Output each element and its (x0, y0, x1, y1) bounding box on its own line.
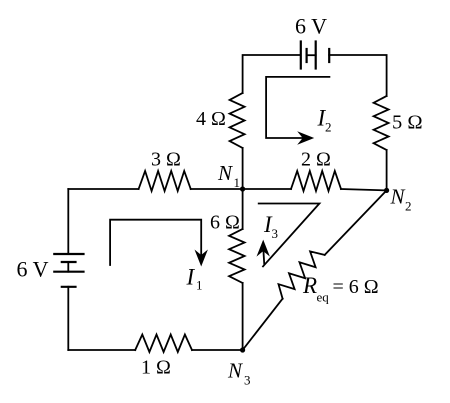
wire: middle left segment to 3-ohm (68, 188, 138, 190)
battery B2 top 6V: short plate 2 (328, 49, 330, 62)
resistor 5 ohm (374, 96, 389, 150)
svg-text:2: 2 (405, 199, 412, 214)
svg-text:6 Ω: 6 Ω (210, 212, 240, 234)
wire: 5-ohm to node N2 (386, 150, 388, 190)
svg-text:3 Ω: 3 Ω (151, 149, 181, 171)
svg-text:3: 3 (244, 373, 251, 388)
loop indicator I3 (top line + diagonal) (259, 204, 320, 267)
arrowhead I2 (right) (297, 131, 314, 144)
resistor 6 ohm (229, 229, 245, 283)
svg-text:N: N (227, 359, 243, 383)
node N2 dot (384, 188, 389, 193)
svg-text:I: I (186, 265, 196, 290)
svg-text:1 Ω: 1 Ω (141, 357, 171, 379)
svg-text:5 Ω: 5 Ω (392, 112, 423, 134)
wire: 4-ohm to node N1 (242, 148, 244, 189)
svg-text:1: 1 (196, 278, 203, 293)
arrowhead I3 (up) (257, 240, 270, 257)
wire: bottom left to 1-ohm (68, 349, 135, 351)
svg-text:3: 3 (272, 226, 279, 241)
resistor 1 ohm (135, 335, 192, 353)
wire: left branch upper (67, 189, 69, 254)
loop indicator I2 (266, 77, 329, 138)
node N3 dot (240, 347, 245, 352)
wire: diagonal lower (N3 to Req) (243, 299, 283, 350)
arrowhead I1 (down) (195, 250, 208, 267)
wire: 3-ohm to node N1 (191, 188, 243, 190)
resistor 2 ohm (291, 171, 341, 191)
wire: 2-ohm to node N2 (341, 189, 387, 190)
svg-text:1: 1 (234, 175, 241, 190)
wire: left branch lower (67, 287, 69, 350)
svg-text:N: N (390, 185, 406, 209)
svg-text:2: 2 (325, 120, 332, 135)
wire: 6-ohm to node N3 (242, 283, 244, 350)
wire: node N1 to 6-ohm (242, 189, 244, 229)
battery B1 left 6V: short plate 1 (62, 261, 76, 263)
wire: top-left corner above 4-ohm (243, 55, 300, 93)
arrow shaft I3 (262, 250, 265, 264)
svg-text:N: N (217, 161, 233, 185)
svg-text:= 6 Ω: = 6 Ω (333, 276, 379, 298)
battery B2 top 6V: connecting stub (307, 54, 316, 56)
node N1 dot (240, 186, 245, 191)
wire: top battery to top-right corner (329, 55, 386, 96)
svg-text:R: R (302, 273, 317, 298)
wire: node N1 to 2-ohm (243, 188, 291, 190)
svg-text:6 V: 6 V (295, 14, 327, 39)
loop indicator I1 (110, 220, 201, 265)
svg-text:6 V: 6 V (17, 257, 49, 282)
battery B1 left 6V: connecting stub (67, 262, 69, 272)
battery B1 left 6V: long plate 2 (54, 271, 83, 273)
battery B2 top 6V: long plate 1 (300, 42, 302, 69)
svg-text:2 Ω: 2 Ω (301, 149, 331, 171)
battery B2 top 6V: long plate 2 (315, 42, 317, 69)
wire: diagonal upper (Req to N2) (325, 190, 387, 255)
battery B2 top 6V: short plate 1 (306, 49, 308, 62)
resistor 4 ohm (230, 93, 245, 148)
resistor 3 ohm (139, 171, 191, 191)
battery B1 left 6V: short plate 2 (62, 286, 76, 288)
battery B1 left 6V: long plate 1 (54, 253, 83, 255)
resistor Req diagonal (279, 251, 325, 298)
svg-text:4 Ω: 4 Ω (196, 108, 226, 130)
svg-text:eq: eq (317, 290, 330, 305)
wire: 1-ohm to node N3 (192, 349, 243, 351)
